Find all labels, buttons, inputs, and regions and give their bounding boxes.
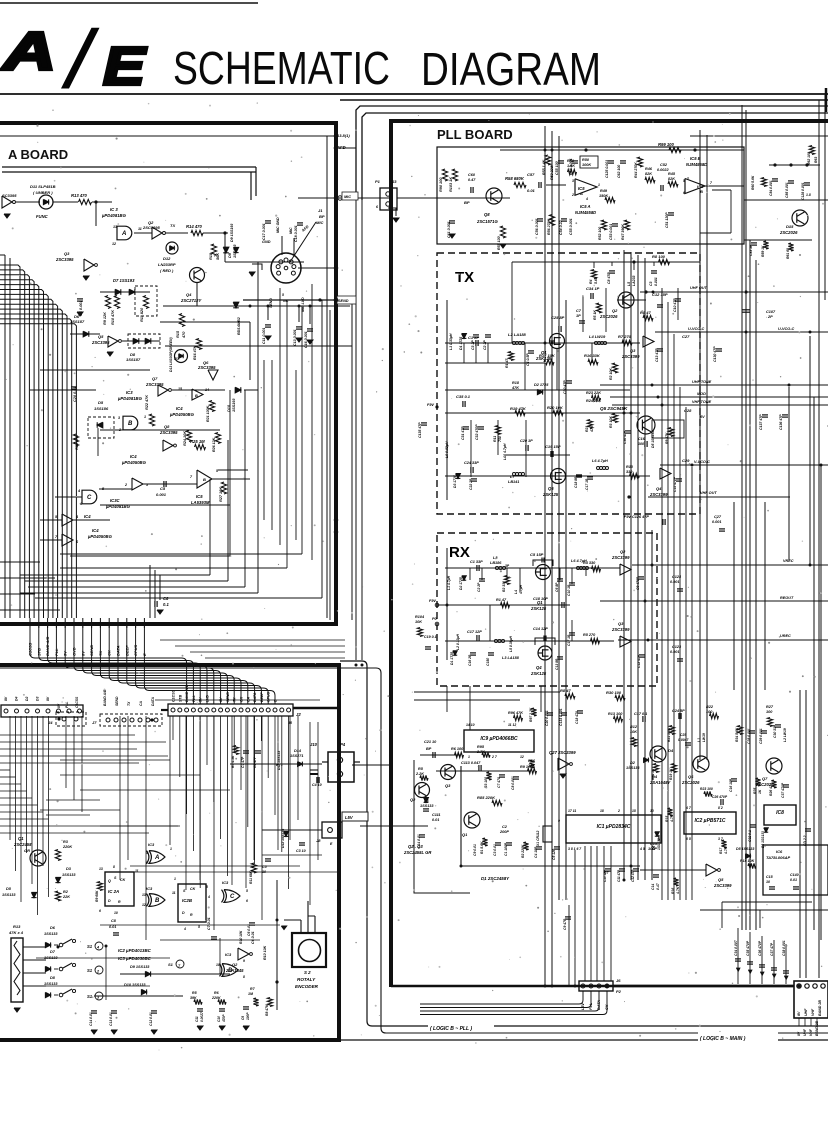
svg-text:A: A [154,855,159,861]
svg-text:8: 8 [243,975,245,979]
svg-text:IC6: IC6 [776,849,783,854]
svg-text:C25 8P: C25 8P [551,315,565,320]
svg-text:11: 11 [172,891,176,895]
svg-text:R19 47K: R19 47K [510,406,527,411]
svg-text:1: 1 [174,877,176,881]
svg-text:IC3: IC3 [148,842,155,847]
svg-text:1.8: 1.8 [806,193,811,197]
svg-text:C4 18P: C4 18P [534,846,538,858]
svg-text:R11: R11 [493,436,497,442]
svg-text:D: D [108,899,111,903]
svg-text:39K: 39K [190,996,197,1000]
svg-text:C12 47P: C12 47P [637,654,641,668]
svg-text:BAND A/B: BAND A/B [103,689,107,706]
svg-text:C35 470P: C35 470P [746,940,750,956]
svg-text:C6 8P: C6 8P [555,582,559,592]
svg-text:0.001: 0.001 [670,650,680,654]
svg-text:0.01: 0.01 [432,818,439,822]
svg-text:TX: TX [233,697,237,702]
svg-text:F9V: F9V [429,599,436,603]
svg-text:18: 18 [600,809,604,813]
svg-text:L2 LW19: L2 LW19 [783,728,787,742]
svg-text:J6: J6 [616,978,621,983]
svg-text:3: 3 [118,416,120,420]
svg-text:C27: C27 [682,334,690,339]
svg-text:C137 47P: C137 47P [759,414,763,430]
svg-text:PLL: PLL [65,702,69,708]
svg-text:C31 47P: C31 47P [461,426,465,440]
svg-text:UHF TONE: UHF TONE [692,380,712,384]
svg-text:R18: R18 [512,381,520,385]
svg-text:L5V: L5V [345,815,354,820]
svg-text:C32 0.1: C32 0.1 [748,830,752,842]
svg-text:C10 47P: C10 47P [673,298,677,312]
svg-text:Q8: Q8 [164,424,170,429]
svg-text:C2 2P: C2 2P [477,582,481,592]
svg-text:2SK125: 2SK125 [530,606,547,611]
svg-text:C84 0.001: C84 0.001 [769,180,773,196]
svg-text:D3: D3 [36,697,40,701]
svg-text:C85 0.001: C85 0.001 [785,182,789,198]
svg-text:1SS187: 1SS187 [70,319,85,324]
svg-text:Q3: Q3 [618,621,624,626]
svg-text:IC9 µPD4066BC: IC9 µPD4066BC [480,736,518,742]
svg-text:C8: C8 [163,596,169,601]
svg-text:10: 10 [650,809,654,813]
svg-text:D5: D5 [98,400,104,405]
svg-text:47K: 47K [511,386,519,390]
svg-text:Q7: Q7 [762,776,768,781]
svg-text:10: 10 [216,963,220,967]
svg-text:C27: C27 [714,515,722,519]
svg-text:1P: 1P [576,314,581,318]
svg-text:R96 47K: R96 47K [508,711,523,715]
svg-text:C3 10: C3 10 [296,849,306,853]
svg-text:100P: 100P [246,1012,250,1020]
svg-text:R20 10K: R20 10K [547,405,564,410]
svg-text:IC5: IC5 [196,494,203,499]
svg-text:C24 33P: C24 33P [464,461,479,465]
svg-text:A: A [579,191,583,196]
svg-text:10: 10 [114,911,118,915]
svg-text:R55 100: R55 100 [497,236,501,250]
svg-text:330: 330 [626,470,633,474]
svg-text:47K: 47K [590,425,594,433]
svg-text:R17 10K: R17 10K [539,353,556,358]
svg-text:L1 4.7µH: L1 4.7µH [447,575,451,590]
svg-text:LN233RP: LN233RP [158,262,176,267]
svg-text:P1: P1 [375,179,381,184]
svg-text:SEND: SEND [226,692,230,702]
svg-text:D9 1SS133: D9 1SS133 [130,965,150,969]
svg-text:82K: 82K [645,172,652,176]
svg-text:100: 100 [766,710,773,714]
svg-text:100: 100 [706,710,713,714]
svg-text:Q6: Q6 [548,486,554,491]
svg-text:D10 1SS133: D10 1SS133 [124,983,146,987]
svg-text:C10 1P: C10 1P [567,584,571,596]
svg-text:B: B [128,421,133,427]
svg-text:1SS133: 1SS133 [62,873,76,877]
svg-text:( LOGIC B ~ MAIN ): ( LOGIC B ~ MAIN ) [700,1036,746,1042]
svg-text:C13 0.01: C13 0.01 [109,1012,113,1026]
svg-text:C1 33P: C1 33P [470,560,483,564]
svg-text:C34 0.007: C34 0.007 [734,939,738,956]
svg-text:C19 15P: C19 15P [545,444,561,449]
svg-text:C8 0.001: C8 0.001 [511,776,515,790]
svg-text:C5 12P: C5 12P [552,848,556,860]
svg-text:C130 47P: C130 47P [713,346,717,362]
svg-text:6: 6 [99,909,101,913]
svg-text:4: 4 [207,895,210,899]
svg-text:Q2: Q2 [620,549,626,554]
svg-text:0.01: 0.01 [790,878,797,882]
svg-text:2: 2 [617,809,620,813]
svg-text:DIAGRAM: DIAGRAM [421,43,601,95]
svg-text:R: R [190,913,193,917]
svg-text:R7 270: R7 270 [618,334,632,339]
svg-text:R11 820: R11 820 [140,307,144,322]
svg-text:0.01: 0.01 [109,925,116,929]
svg-text:LA5393M: LA5393M [191,500,210,505]
svg-text:R49: R49 [600,189,608,193]
svg-text:8V: 8V [797,1011,801,1016]
svg-text:C36 470P: C36 470P [758,940,762,956]
svg-text:D12: D12 [163,256,171,261]
svg-text:2SC3399: 2SC3399 [621,354,640,359]
svg-text:ENCODER: ENCODER [295,984,319,989]
svg-text:R14 470: R14 470 [186,224,203,229]
svg-text:L5 0.39µH: L5 0.39µH [509,636,513,652]
svg-text:C30 33P: C30 33P [773,724,777,738]
svg-text:2SC2458L GR: 2SC2458L GR [403,850,431,855]
svg-text:100K: 100K [582,163,591,167]
svg-text:Q1: Q1 [462,832,468,837]
svg-text:UREC: UREC [780,634,791,638]
svg-text:C16: C16 [638,437,646,441]
svg-text:C107: C107 [766,310,776,314]
svg-text:2SC3395: 2SC3395 [55,257,74,262]
svg-text:L6 4.7µH: L6 4.7µH [592,459,608,463]
svg-text:Q5: Q5 [98,334,104,339]
svg-text:Q27 2SC3399: Q27 2SC3399 [549,750,576,755]
svg-text:R22: R22 [706,705,714,709]
svg-text:2P: 2P [767,315,773,319]
svg-text:MOD: MOD [697,392,706,396]
svg-text:LB186: LB186 [490,561,502,565]
svg-text:C: C [87,495,92,501]
svg-text:IC3: IC3 [146,886,153,891]
svg-text:C111: C111 [432,813,441,817]
svg-text:C1CSS: C1CSS [75,696,79,708]
svg-text:B: B [700,189,703,194]
svg-text:R104: R104 [415,615,425,619]
svg-text:C9 47P: C9 47P [563,918,567,930]
svg-text:C136 47P: C136 47P [779,414,783,430]
svg-text:C13 8P: C13 8P [555,658,559,670]
svg-text:C14 0.01: C14 0.01 [89,1012,93,1026]
svg-text:IC2 µPD4013BC: IC2 µPD4013BC [118,948,152,953]
svg-text:1.5K: 1.5K [567,164,575,168]
svg-text:( LOGIC B ~ PLL ): ( LOGIC B ~ PLL ) [430,1026,472,1032]
svg-text:C9 0.01: C9 0.01 [473,844,477,856]
svg-text:1SS186: 1SS186 [94,406,109,411]
svg-text:L4 LW19: L4 LW19 [589,334,606,339]
svg-text:C62 100: C62 100 [617,165,621,178]
svg-text:C13 47P: C13 47P [655,348,659,362]
svg-text:R13: R13 [13,924,21,929]
svg-text:IC2 µPB571C: IC2 µPB571C [695,818,726,824]
svg-text:B: B [195,394,198,398]
svg-text:MIC GND: MIC GND [276,217,280,233]
svg-text:0.001: 0.001 [670,580,680,584]
svg-text:S1: S1 [87,968,93,973]
svg-text:L2 LA188: L2 LA188 [508,332,527,337]
svg-text:TX: TX [455,269,474,286]
svg-text:0.47: 0.47 [468,178,476,182]
svg-text:VHF TONE: VHF TONE [692,400,712,404]
svg-text:C14 0.01: C14 0.01 [417,834,421,848]
svg-text:R8 47K: R8 47K [265,1004,269,1016]
svg-text:8V: 8V [46,696,50,701]
svg-text:6 5: 6 5 [686,837,691,841]
svg-text:Q4: Q4 [656,486,662,491]
svg-text:220K: 220K [62,845,72,849]
svg-text:D11 SLP451B: D11 SLP451B [30,184,56,189]
svg-text:0.1: 0.1 [163,602,169,607]
svg-text:CD 2.2: CD 2.2 [803,835,807,846]
svg-text:C35 0.1: C35 0.1 [456,394,471,399]
svg-text:IC3 µPD4030BC: IC3 µPD4030BC [118,956,152,961]
svg-text:8: 8 [113,865,115,869]
svg-text:C17 1P: C17 1P [585,478,589,490]
svg-text:R23 22K: R23 22K [586,391,601,395]
svg-text:D3 1725: D3 1725 [453,475,457,488]
svg-text:C18 0.001: C18 0.001 [294,225,298,242]
svg-text:1SS193: 1SS193 [232,398,236,412]
svg-text:J8: J8 [316,838,321,843]
svg-text:VHF: VHF [811,1008,815,1016]
svg-text:C17 1P: C17 1P [567,634,571,646]
svg-text:Q6: Q6 [688,774,694,779]
svg-text:13.8(1): 13.8(1) [337,133,350,138]
svg-text:REOUT: REOUT [780,596,794,600]
svg-text:0.001: 0.001 [156,492,167,497]
svg-text:C133 0.001: C133 0.001 [559,708,563,726]
svg-text:C32 470P: C32 470P [475,424,479,440]
svg-text:10K: 10K [415,620,422,624]
svg-text:3: 3 [572,179,574,183]
svg-text:R27 10K: R27 10K [219,487,223,502]
svg-text:L1 0.33µH: L1 0.33µH [449,333,453,350]
svg-text:1K: 1K [758,789,762,794]
svg-text:C16 10P: C16 10P [729,778,733,792]
svg-text:J10: J10 [310,742,318,747]
svg-text:R10: R10 [626,465,634,469]
svg-text:µPD4050BG: µPD4050BG [87,534,113,539]
svg-text:IC 2A: IC 2A [108,889,119,894]
svg-text:U-VCO-C: U-VCO-C [688,327,704,331]
svg-text:R23 100: R23 100 [700,787,713,791]
svg-text:SEND: SEND [338,299,349,303]
svg-text:L1: L1 [697,738,701,742]
svg-text:R17: R17 [719,847,723,854]
svg-text:0.001: 0.001 [654,277,658,286]
svg-text:150K: 150K [599,194,608,198]
svg-text:11 12: 11 12 [508,723,516,727]
svg-text:S 2: S 2 [304,970,311,975]
svg-text:5: 5 [198,925,200,929]
svg-text:2SC3399: 2SC3399 [713,883,732,888]
svg-text:11: 11 [135,869,139,873]
svg-text:C20 1P: C20 1P [520,439,533,443]
svg-text:IC4: IC4 [84,514,91,519]
svg-text:LB141: LB141 [508,480,519,484]
svg-text:D1 2SC2458Y: D1 2SC2458Y [481,876,510,881]
svg-text:2SC2712Y: 2SC2712Y [180,298,202,303]
svg-text:R10 47K: R10 47K [111,310,115,325]
svg-text:2SC3395: 2SC3395 [159,430,178,435]
svg-text:D2 1725: D2 1725 [459,577,463,590]
svg-text:4.7K: 4.7K [676,886,680,895]
svg-text:C140: C140 [790,873,799,877]
svg-text:Q5: Q5 [718,877,724,882]
svg-text:6: 6 [683,191,685,195]
svg-text:2SC3395: 2SC3395 [197,365,216,370]
svg-text:C2 2P: C2 2P [483,340,487,350]
svg-text:C21 10: C21 10 [424,740,437,744]
svg-text:2SC3399: 2SC3399 [611,555,630,560]
svg-text:8V: 8V [4,696,8,701]
svg-text:CA: CA [246,696,250,702]
svg-text:Q3: Q3 [445,783,451,788]
svg-text:UHF OUT: UHF OUT [690,286,708,290]
svg-text:R5 1K: R5 1K [593,310,597,320]
svg-text:D2: D2 [25,697,29,701]
svg-text:Q1: Q1 [18,836,24,841]
svg-text:2SK125: 2SK125 [542,492,559,497]
svg-text:9: 9 [558,819,560,823]
svg-text:C9: C9 [241,1016,245,1020]
svg-text:R9 1.5K: R9 1.5K [520,765,534,769]
svg-text:LW19: LW19 [702,733,706,742]
svg-text:DATA: DATA [253,692,257,702]
svg-text:C124: C124 [672,575,682,579]
svg-text:R51: R51 [567,159,574,163]
svg-text:0.001: 0.001 [712,520,722,524]
svg-text:2SC2026: 2SC2026 [779,230,798,235]
svg-text:E: E [103,37,147,97]
svg-text:C3: C3 [649,281,653,286]
svg-text:13: 13 [99,867,103,871]
svg-text:L3 LA188: L3 LA188 [502,656,520,660]
svg-text:STB: STB [178,694,182,702]
svg-text:47K x 4: 47K x 4 [8,930,24,935]
svg-text:TX: TX [170,223,175,228]
svg-text:D4: D4 [668,748,674,753]
svg-text:1SS133: 1SS133 [626,766,640,770]
svg-text:1: 1 [144,415,146,419]
svg-text:2SC2026: 2SC2026 [599,314,618,319]
svg-text:UHF: UHF [803,1028,807,1036]
svg-text:C54 0.22: C54 0.22 [559,220,563,235]
svg-text:8V: 8V [700,415,705,419]
svg-text:BP: BP [319,214,325,219]
svg-text:C83 3P: C83 3P [749,244,753,256]
svg-text:750: 750 [498,436,502,442]
svg-text:C7 0.01: C7 0.01 [207,917,211,930]
svg-text:C6 0.01: C6 0.01 [251,931,255,944]
svg-text:1SS133: 1SS133 [44,982,58,986]
svg-text:C9 470P: C9 470P [636,576,640,590]
svg-text:R52 100: R52 100 [598,227,602,240]
svg-text:R99 100: R99 100 [658,142,675,147]
svg-text:D7 1SS193: D7 1SS193 [113,278,135,283]
svg-text:12: 12 [142,903,146,907]
svg-text:S1: S1 [168,962,174,967]
svg-text:6: 6 [246,899,248,903]
svg-text:R46: R46 [645,167,653,171]
svg-text:NJM4558D: NJM4558D [575,210,596,215]
svg-text:Q4: Q4 [536,665,542,670]
svg-text:IC5 A: IC5 A [580,204,591,209]
svg-text:R21 100K: R21 100K [206,405,210,422]
svg-text:CK: CK [240,696,244,702]
svg-text:µPD4050BG: µPD4050BG [169,412,195,417]
svg-text:1SS187: 1SS187 [126,357,141,362]
svg-text:C22 2P: C22 2P [469,478,473,490]
svg-text:J3: J3 [392,179,397,184]
svg-text:2SK125: 2SK125 [530,671,547,676]
svg-text:CA: CA [139,701,143,706]
svg-text:RD5.6MB2: RD5.6MB2 [237,317,241,335]
svg-text:C55 0.001: C55 0.001 [569,218,573,235]
svg-text:R2 10K: R2 10K [609,368,613,380]
svg-text:R13 100: R13 100 [608,712,623,716]
svg-text:J7: J7 [92,720,97,725]
svg-text:0.47: 0.47 [656,882,660,890]
svg-text:0.01: 0.01 [527,188,536,193]
svg-text:C16 2P: C16 2P [468,654,472,666]
svg-text:4: 4 [585,197,588,201]
svg-text:BP: BP [426,747,432,751]
svg-text:IC2B: IC2B [182,898,193,903]
svg-text:2SC2026: 2SC2026 [681,780,700,785]
svg-text:Q2 . Q3: Q2 . Q3 [408,844,423,849]
svg-text:12: 12 [112,242,116,246]
svg-text:17 11: 17 11 [568,809,576,813]
svg-text:R62 100: R62 100 [807,152,811,165]
svg-text:R27: R27 [766,705,774,709]
svg-text:B: B [203,477,206,482]
svg-text:SEND: SEND [269,298,273,308]
svg-text:L9 0.82µH: L9 0.82µH [445,441,449,458]
svg-text:1SS271: 1SS271 [290,754,304,758]
svg-text:R10 10K: R10 10K [263,945,267,960]
svg-text:BP: BP [464,200,470,205]
svg-text:( RED ): ( RED ) [160,268,174,273]
svg-text:TA78L006AP: TA78L006AP [766,855,790,860]
svg-text:MIC: MIC [344,195,351,199]
svg-text:IC5 B: IC5 B [690,156,701,161]
svg-text:56K: 56K [216,253,220,260]
svg-text:C: C [230,894,235,900]
svg-text:5: 5 [246,889,248,893]
svg-text:B: B [155,898,160,904]
svg-text:2SC3399: 2SC3399 [649,492,668,497]
svg-text:R16 33K: R16 33K [584,353,601,358]
svg-text:R6 100: R6 100 [451,747,464,751]
